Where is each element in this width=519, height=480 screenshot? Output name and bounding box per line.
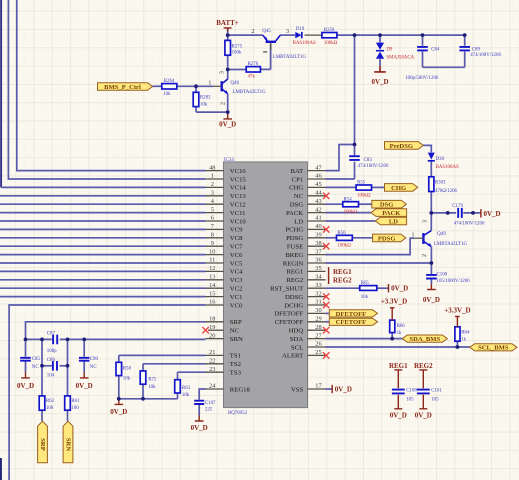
- svg-text:CFETOFF: CFETOFF: [336, 319, 367, 326]
- svg-text:VC9: VC9: [230, 227, 243, 234]
- wire SRN rail right segment to pin 20: [60, 338, 206, 340]
- svg-text:VC15: VC15: [230, 176, 247, 183]
- TVS diode D9 SMAJ58ACA (bidirectional): [376, 43, 415, 61]
- resistor R75: [140, 371, 157, 390]
- wire D19 to R258: [305, 34, 322, 36]
- svg-text:REG2: REG2: [333, 276, 352, 284]
- wire R54 to DSG port: [359, 203, 372, 205]
- svg-text:HDQ: HDQ: [289, 328, 304, 335]
- svg-text:105: 105: [431, 397, 439, 402]
- svg-text:R58: R58: [123, 366, 132, 371]
- svg-text:VC8: VC8: [230, 235, 243, 242]
- wire C90 to ground: [83, 361, 85, 372]
- svg-text:C84: C84: [431, 48, 440, 53]
- svg-text:R56: R56: [337, 231, 346, 236]
- wire R276 right to Q45 base: [260, 44, 270, 70]
- svg-text:SMAJ58ACA: SMAJ58ACA: [386, 56, 414, 61]
- svg-text:VC11: VC11: [230, 210, 246, 217]
- wire R64 pull-up bottom lead: [456, 341, 458, 347]
- resistor R66: [390, 320, 406, 336]
- svg-text:R54: R54: [344, 197, 353, 202]
- power port REG1 (above C108): [389, 362, 408, 388]
- svg-text:0V_D: 0V_D: [423, 296, 440, 304]
- wire VC5 row to pin: [0, 262, 206, 264]
- svg-text:R258: R258: [324, 28, 335, 33]
- resistor R303: [429, 177, 458, 194]
- wire RST_SHUT pin 33 to R65: [326, 287, 360, 289]
- wire R283 top lead: [195, 86, 197, 92]
- svg-text:48: 48: [209, 164, 215, 171]
- svg-text:3: 3: [211, 190, 214, 197]
- wire REG18 pin 24 to C107: [199, 389, 205, 400]
- svg-text:NC: NC: [294, 193, 304, 200]
- svg-text:Q49: Q49: [437, 232, 446, 237]
- wire rail drop to C83 / CP1 column: [354, 35, 356, 155]
- wire R62 to SRP port: [41, 410, 43, 421]
- svg-text:NC: NC: [90, 365, 97, 370]
- svg-text:PACK: PACK: [382, 210, 401, 217]
- no-ERC crosses on right-side unused pins: [323, 193, 329, 359]
- wire R75 bottom lead: [142, 384, 144, 399]
- svg-text:CHG: CHG: [391, 185, 406, 192]
- wire Q48 emitter to ground: [227, 94, 229, 112]
- svg-text:DFETOFF: DFETOFF: [274, 311, 303, 318]
- svg-text:BQ76952: BQ76952: [228, 411, 248, 416]
- svg-text:31: 31: [315, 299, 321, 306]
- svg-text:20: 20: [209, 332, 215, 339]
- svg-text:474/100V/1206: 474/100V/1206: [454, 222, 485, 227]
- power port 0V_D (C100): [423, 284, 440, 304]
- svg-text:24: 24: [209, 383, 216, 390]
- svg-text:0V_D: 0V_D: [371, 78, 388, 86]
- resistor R64: [455, 327, 470, 343]
- port PACK: [371, 209, 407, 217]
- wire C100 bottom lead: [430, 279, 432, 284]
- capacitor C83: [349, 156, 389, 169]
- svg-text:45: 45: [315, 181, 321, 188]
- svg-text:REG1: REG1: [333, 268, 352, 276]
- svg-text:REGIN: REGIN: [283, 260, 304, 267]
- svg-text:R303: R303: [435, 181, 446, 186]
- capacitor C100: [426, 273, 470, 284]
- svg-text:R264: R264: [164, 79, 175, 84]
- svg-text:DCHG: DCHG: [284, 302, 303, 309]
- svg-text:0V_D: 0V_D: [17, 382, 34, 390]
- wire C86 right lead: [60, 365, 68, 367]
- wire LD pin 41 to port: [326, 220, 376, 222]
- port DFETOFF: [329, 310, 377, 318]
- svg-text:9: 9: [211, 240, 214, 247]
- wire R58 top lead: [118, 355, 120, 362]
- wire CFETOFF pin 29 to port: [326, 321, 330, 323]
- resistor R283: [193, 92, 211, 107]
- svg-text:VC3: VC3: [230, 277, 243, 284]
- svg-text:R55: R55: [357, 181, 366, 186]
- svg-text:47k: 47k: [248, 74, 256, 79]
- wire VC15 from top edge to pin 1: [8, 0, 205, 179]
- svg-text:10k: 10k: [200, 103, 208, 108]
- wire Q49 emitter lead: [430, 247, 432, 263]
- svg-text:5: 5: [211, 206, 214, 213]
- svg-text:R64: R64: [461, 331, 470, 336]
- svg-text:28: 28: [315, 324, 321, 331]
- power port 0V_D (C107): [191, 416, 208, 432]
- svg-text:C86: C86: [47, 358, 56, 363]
- wire PACK node to C179: [431, 212, 456, 214]
- power port BATT+: [216, 19, 239, 32]
- svg-text:3: 3: [286, 28, 289, 35]
- transistor Q48 LMBTA42LT1G (NPN): [208, 71, 266, 105]
- power port 0V_D (C90): [76, 373, 93, 390]
- wire R61 to SRN port: [67, 410, 69, 421]
- svg-text:NC: NC: [32, 365, 39, 370]
- port CFETOFF: [329, 318, 377, 326]
- power port REG2 (above C101): [414, 362, 433, 388]
- svg-text:SCL_BMS: SCL_BMS: [478, 345, 509, 352]
- svg-text:32: 32: [315, 290, 321, 297]
- wire SRN rail left segment: [26, 338, 52, 340]
- svg-text:C101: C101: [431, 389, 442, 394]
- svg-text:SDA_BMS: SDA_BMS: [409, 336, 440, 343]
- svg-text:8: 8: [211, 232, 214, 239]
- wire VC13 row to pin: [0, 195, 206, 197]
- svg-text:10k: 10k: [163, 92, 171, 97]
- wire DSG pin 43 to R54: [326, 203, 343, 205]
- svg-text:PDSG: PDSG: [378, 235, 396, 242]
- svg-text:RST_SHUT: RST_SHUT: [270, 286, 303, 293]
- svg-text:FUSE: FUSE: [287, 244, 303, 251]
- power port +3.3V_D (SDA pull-up): [381, 298, 407, 321]
- svg-text:35: 35: [315, 265, 321, 272]
- port CHG: [385, 184, 418, 192]
- capacitor C84: [417, 47, 440, 53]
- svg-text:13: 13: [209, 274, 215, 281]
- svg-text:29: 29: [315, 316, 321, 323]
- wire BATT+ top rail: [337, 34, 465, 36]
- svg-text:10k: 10k: [182, 393, 190, 398]
- svg-text:15: 15: [209, 290, 215, 297]
- power port +3.3V_D (SCL pull-up): [444, 307, 470, 327]
- svg-text:VC10: VC10: [230, 218, 247, 225]
- svg-text:47: 47: [315, 164, 322, 171]
- svg-text:100kΩ: 100kΩ: [337, 244, 351, 249]
- wire VC14 from top edge to pin 2: [0, 0, 2, 187]
- wire R61 branch upper: [67, 339, 69, 396]
- svg-text:25: 25: [315, 349, 321, 356]
- wire PACK pin 42 to port: [326, 212, 372, 214]
- svg-text:DSG: DSG: [290, 202, 304, 209]
- svg-text:LD: LD: [294, 218, 303, 225]
- wire R275 bottom lead: [227, 55, 229, 69]
- svg-text:21: 21: [209, 349, 215, 356]
- resistor R55: [356, 181, 371, 199]
- svg-text:DDSG: DDSG: [285, 294, 303, 301]
- port SDA_BMS: [402, 335, 447, 343]
- svg-text:R66: R66: [397, 324, 406, 329]
- wire R55 to CHG port: [372, 186, 385, 188]
- svg-text:VC0: VC0: [230, 302, 243, 309]
- wire R62 branch upper: [41, 339, 43, 396]
- resistor R258: [322, 28, 338, 46]
- svg-text:TS1: TS1: [230, 353, 241, 360]
- wire CHG pin 45 to R55: [326, 186, 357, 188]
- svg-text:ALERT: ALERT: [282, 353, 303, 360]
- svg-text:SDA: SDA: [290, 336, 304, 343]
- power port 0V_D (Q48 emitter): [219, 112, 236, 128]
- svg-text:REG2: REG2: [414, 362, 433, 370]
- svg-text:225: 225: [205, 408, 213, 413]
- wire R65 to 0V_D bar: [377, 287, 388, 289]
- port PreDSG: [385, 142, 424, 150]
- no-ERC cross on pin 19 NC: [202, 327, 208, 333]
- svg-text:10k: 10k: [148, 385, 156, 390]
- svg-text:SRP: SRP: [39, 438, 46, 450]
- wire R264 to Q48 base: [177, 85, 213, 87]
- svg-text:SRN: SRN: [230, 336, 243, 343]
- svg-text:BAS100AS: BAS100AS: [436, 165, 459, 170]
- wire R63 top lead: [177, 372, 179, 380]
- transistor Q49 LMBTA42LT1G (NPN): [411, 220, 467, 257]
- port BMS_P_Ctrl: [98, 83, 153, 91]
- svg-text:Q48: Q48: [231, 81, 240, 86]
- svg-text:104: 104: [47, 374, 55, 379]
- wire R63 bottom lead: [177, 393, 179, 399]
- svg-text:VC13: VC13: [230, 193, 247, 200]
- capacitor C90: [79, 357, 99, 370]
- wire BMS_P_Ctrl port to R264: [153, 85, 162, 87]
- svg-text:16: 16: [209, 299, 215, 306]
- wire SCL pin 26 to SCL_BMS port: [326, 346, 470, 348]
- power port 0V_D (R65): [389, 284, 409, 293]
- svg-text:42: 42: [315, 206, 321, 213]
- svg-text:+3.3V_D: +3.3V_D: [381, 298, 407, 306]
- wire VC7 row to pin: [0, 245, 206, 247]
- svg-text:SRN: SRN: [64, 438, 71, 451]
- svg-text:1k: 1k: [397, 331, 402, 336]
- wire D30 to R303: [430, 161, 432, 177]
- svg-text:REG18: REG18: [230, 386, 251, 393]
- svg-text:19: 19: [209, 324, 215, 331]
- svg-text:2: 2: [421, 254, 428, 257]
- svg-text:NC: NC: [230, 328, 240, 335]
- wire VC1 row to pin: [0, 296, 206, 298]
- svg-text:1: 1: [208, 80, 211, 87]
- svg-text:BATT+: BATT+: [216, 19, 239, 27]
- wire VC8 row to pin: [0, 237, 206, 239]
- svg-text:2: 2: [211, 181, 214, 188]
- svg-text:REG2: REG2: [286, 277, 303, 284]
- wire Q48 collector lead: [227, 70, 229, 80]
- resistor R276: [246, 62, 260, 79]
- power port REG2 (pin 34): [329, 276, 353, 285]
- svg-text:23: 23: [209, 366, 215, 373]
- power port 0V_D (below C101): [415, 395, 432, 420]
- svg-text:0V_D: 0V_D: [415, 411, 432, 419]
- resistor R58: [116, 362, 132, 381]
- svg-text:R61: R61: [71, 399, 80, 404]
- power port 0V_D (TS dividers): [110, 399, 127, 416]
- wire TS3 pin 23 wire: [178, 371, 206, 373]
- wire stub at bottom-left edge: [0, 458, 2, 480]
- svg-text:10k: 10k: [361, 295, 369, 300]
- wire C179 to 0V_D bar: [463, 212, 481, 214]
- resistor R54: [343, 197, 359, 215]
- power port REG1 (pin 35): [329, 267, 353, 276]
- svg-text:VC14: VC14: [230, 185, 247, 192]
- svg-text:3: 3: [422, 220, 429, 223]
- resistor R275: [225, 40, 243, 55]
- wire VC0 pin 16 to bottom edge: [9, 305, 205, 480]
- wire R75 top lead: [142, 364, 144, 371]
- svg-text:10k: 10k: [123, 377, 131, 382]
- svg-text:TS3: TS3: [230, 370, 242, 377]
- wire VC3 row to pin: [0, 279, 206, 281]
- resistor R62: [39, 396, 54, 411]
- svg-text:R276: R276: [248, 62, 259, 67]
- svg-text:40: 40: [315, 223, 321, 230]
- wire PreDSG port to D30: [423, 145, 431, 152]
- svg-text:0V_D: 0V_D: [391, 285, 408, 293]
- svg-text:38: 38: [315, 240, 321, 247]
- svg-text:33: 33: [315, 282, 321, 289]
- svg-text:44: 44: [315, 190, 322, 197]
- svg-text:2: 2: [220, 102, 227, 105]
- svg-text:DFETOFF: DFETOFF: [336, 311, 367, 318]
- wire C100 top lead: [430, 263, 432, 274]
- wire SRP pin 18 to filter node: [26, 322, 206, 340]
- wire BATT+ rail to Q45 emitter: [228, 34, 263, 36]
- svg-text:46: 46: [315, 173, 321, 180]
- svg-text:IC34: IC34: [224, 158, 234, 163]
- svg-text:LMBTA92LT1G: LMBTA92LT1G: [273, 55, 307, 60]
- wire C83 bottom to CP1 pin 46: [326, 162, 355, 179]
- power port 0V_D (C179): [481, 209, 501, 218]
- svg-text:105/1000V/1206: 105/1000V/1206: [437, 279, 471, 284]
- svg-text:470Ω/1206: 470Ω/1206: [435, 189, 458, 194]
- wire C89 top lead: [464, 35, 466, 46]
- svg-text:DSG: DSG: [380, 202, 394, 209]
- svg-text:100p: 100p: [47, 349, 57, 354]
- wire TS2 pin 22 wire: [143, 363, 206, 365]
- svg-text:C87: C87: [47, 331, 56, 336]
- svg-text:BAT: BAT: [291, 168, 304, 175]
- svg-text:0V_D: 0V_D: [390, 411, 407, 419]
- wire C90 branch: [83, 339, 85, 356]
- svg-text:LMBTA42LT1G: LMBTA42LT1G: [233, 90, 267, 95]
- wire VC4 row to pin: [0, 270, 206, 272]
- svg-text:30: 30: [315, 307, 321, 314]
- svg-text:LMBTA42LT1G: LMBTA42LT1G: [434, 242, 468, 247]
- svg-text:C108: C108: [406, 389, 417, 394]
- svg-text:R75: R75: [148, 377, 157, 382]
- svg-text:C90: C90: [90, 357, 99, 362]
- svg-text:D30: D30: [436, 157, 445, 162]
- svg-text:17: 17: [315, 383, 322, 390]
- svg-text:R283: R283: [200, 96, 211, 101]
- svg-text:3: 3: [218, 71, 225, 74]
- svg-text:Q45: Q45: [262, 29, 271, 34]
- svg-text:REG1: REG1: [389, 362, 408, 370]
- svg-text:0V_D: 0V_D: [191, 424, 208, 432]
- svg-text:100kΩ: 100kΩ: [344, 210, 358, 215]
- power port 0V_D (VSS pin): [332, 385, 352, 394]
- wire VC10 row to pin: [0, 220, 206, 222]
- wire C89 bottom lead: [464, 52, 466, 68]
- svg-text:100k: 100k: [232, 50, 242, 55]
- wire VC16 from top edge to pin 48: [17, 0, 206, 171]
- resistor R65: [360, 281, 377, 300]
- port LD: [375, 217, 406, 225]
- capacitor C101: [417, 389, 442, 403]
- svg-text:100p/500V/1206: 100p/500V/1206: [405, 76, 439, 81]
- svg-text:34: 34: [315, 274, 322, 281]
- wire BREG pin 37 to Q49 base: [326, 238, 415, 254]
- wire VSS pin 17 to 0V_D bar: [326, 388, 332, 390]
- svg-text:D9: D9: [386, 48, 393, 53]
- svg-text:36: 36: [315, 257, 321, 264]
- svg-text:22: 22: [209, 358, 215, 365]
- svg-text:18: 18: [209, 316, 215, 323]
- power port 0V_D (C85): [17, 373, 34, 390]
- svg-text:100: 100: [46, 406, 54, 411]
- svg-text:BMS_P_Ctrl: BMS_P_Ctrl: [104, 84, 141, 91]
- svg-text:VC7: VC7: [230, 244, 243, 251]
- capacitor C179: [452, 204, 485, 227]
- wire C107 to ground: [198, 405, 200, 416]
- resistor R61: [65, 396, 80, 411]
- resistor R56: [337, 231, 353, 249]
- capacitor C86: [47, 358, 57, 379]
- svg-text:474/100V/1206: 474/100V/1206: [358, 164, 389, 169]
- port DSG: [372, 200, 407, 208]
- svg-text:C89: C89: [472, 48, 481, 53]
- wire C84 bottom lead: [422, 52, 424, 68]
- svg-text:39: 39: [315, 232, 321, 239]
- svg-text:1: 1: [411, 231, 414, 238]
- svg-text:1: 1: [211, 173, 214, 180]
- svg-text:11: 11: [209, 257, 215, 264]
- wire VC9 row to pin: [0, 228, 206, 230]
- wire C86 left lead: [42, 365, 52, 367]
- diode D30 BAS100AS: [428, 153, 459, 171]
- capacitor C108: [392, 389, 417, 403]
- svg-text:PACK: PACK: [286, 210, 303, 217]
- svg-text:R62: R62: [46, 399, 55, 404]
- port SRN: [63, 421, 73, 463]
- svg-text:BAS100AS: BAS100AS: [293, 41, 316, 46]
- svg-text:14: 14: [209, 282, 216, 289]
- svg-text:26: 26: [315, 341, 321, 348]
- port SCL_BMS: [470, 344, 517, 352]
- svg-text:0V_D: 0V_D: [219, 120, 236, 128]
- svg-text:C107: C107: [205, 401, 216, 406]
- wire VC11 row to pin: [0, 212, 206, 214]
- svg-text:VC4: VC4: [230, 269, 243, 276]
- svg-text:1k: 1k: [461, 338, 466, 343]
- svg-text:VC2: VC2: [230, 286, 243, 293]
- port PDSG: [373, 234, 406, 242]
- wire REGIN pin 36 to Q49 emitter node: [326, 262, 432, 264]
- svg-text:0V_D: 0V_D: [76, 382, 93, 390]
- svg-text:C100: C100: [437, 273, 448, 278]
- svg-text:CFETOFF: CFETOFF: [275, 319, 304, 326]
- svg-text:100kΩ: 100kΩ: [324, 41, 338, 46]
- svg-text:10: 10: [209, 248, 215, 255]
- wire junction to R276 left: [228, 69, 247, 71]
- svg-text:37: 37: [315, 248, 322, 255]
- wire C84 top lead: [422, 35, 424, 46]
- wire D9 top lead: [379, 35, 381, 42]
